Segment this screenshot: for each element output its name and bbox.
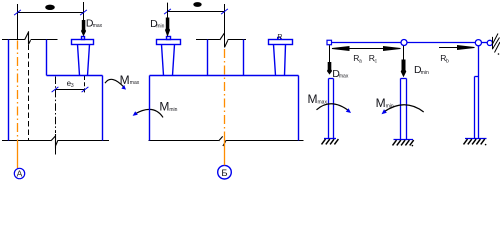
svg-text:M: M: [120, 73, 130, 87]
svg-text:c: c: [375, 59, 378, 65]
svg-text:min: min: [169, 107, 177, 113]
svg-text:max: max: [318, 100, 328, 106]
svg-text:3: 3: [71, 83, 74, 89]
svg-text:b: b: [446, 59, 449, 65]
svg-text:a: a: [359, 58, 362, 64]
svg-text:M: M: [308, 92, 318, 106]
svg-text:A: A: [17, 169, 23, 179]
svg-text:min: min: [421, 70, 429, 76]
svg-text:max: max: [93, 23, 103, 29]
svg-text:max: max: [130, 80, 140, 86]
svg-text:M: M: [376, 96, 386, 110]
svg-text:M: M: [159, 99, 169, 113]
svg-text:min: min: [156, 23, 164, 29]
svg-text:max: max: [339, 74, 349, 80]
svg-text:Б: Б: [221, 168, 227, 179]
svg-text:min: min: [386, 104, 394, 110]
svg-text:R: R: [277, 34, 282, 41]
